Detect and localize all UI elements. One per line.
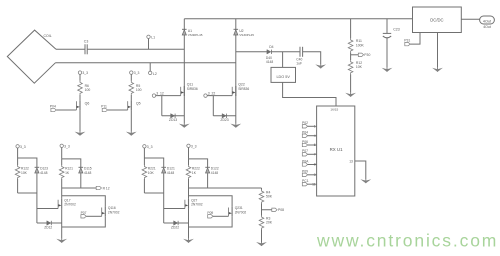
wire top antenna lead (56, 48, 85, 50)
wire left branch split (144, 148, 163, 167)
ground Q22 (230, 124, 241, 128)
wire R12 to ground (350, 74, 352, 93)
transistor Q6 (76, 95, 89, 111)
svg-text:10K: 10K (356, 65, 363, 69)
resistor R122 10K (15, 158, 29, 193)
svg-text:50K: 50K (266, 195, 273, 199)
node 3_3 supply left (R221) (143, 145, 153, 149)
wire gate Q22 (207, 95, 232, 97)
wire D4 to C40 (271, 51, 300, 53)
svg-text:20K: 20K (266, 221, 273, 225)
ground Q6 (75, 132, 86, 136)
regulator LDO 5V (271, 67, 296, 82)
svg-text:3_3: 3_3 (191, 144, 197, 148)
svg-text:100: 100 (85, 88, 91, 92)
svg-text:2N7002: 2N7002 (64, 203, 76, 207)
svg-text:P04: P04 (50, 104, 56, 108)
diode U2 (234, 29, 255, 37)
svg-text:16/15: 16/15 (330, 108, 338, 112)
svg-text:4Out: 4Out (483, 25, 491, 29)
svg-text:4148: 4148 (266, 60, 274, 64)
zener ZD13 (162, 114, 185, 123)
resistor R3 20K (259, 216, 273, 230)
wire LDO output to RX U1 (283, 82, 336, 106)
svg-text:ZD23: ZD23 (220, 118, 228, 122)
transistor Q11 (181, 83, 198, 96)
diode D122 4148 (205, 167, 219, 188)
svg-text:D4: D4 (269, 45, 273, 49)
transistor Q22 (232, 83, 249, 96)
svg-text:10K: 10K (21, 171, 28, 175)
diode D115 4148 (79, 167, 92, 188)
svg-text:13: 13 (349, 160, 353, 164)
resistor R222 1K (186, 159, 200, 199)
resistor R221 10K (142, 158, 156, 193)
resistor R4 50K (259, 188, 273, 204)
svg-text:1K: 1K (65, 171, 70, 175)
tag P07 pin 7 (302, 149, 317, 156)
wire DC/DC output (461, 18, 479, 20)
svg-text:2N7002: 2N7002 (191, 203, 203, 207)
wire main to ground (61, 209, 63, 239)
svg-text:4148: 4148 (211, 171, 219, 175)
diode D123 4148 (35, 167, 49, 193)
wire top supply rail (184, 18, 412, 20)
tag PC1 pin 11 (302, 179, 317, 186)
svg-text:1uF: 1uF (296, 61, 302, 65)
diode U1 (182, 29, 203, 37)
svg-text:11: 11 (312, 182, 316, 186)
ground C23 (382, 68, 393, 72)
wire gate Q11 (156, 95, 181, 97)
wire main to ground (188, 209, 190, 239)
wire source Q116 return (62, 217, 106, 227)
svg-text:P08: P08 (278, 208, 284, 212)
diode D4 4148 (266, 45, 274, 64)
wire D4 branch (236, 51, 267, 53)
ground DC/DC (432, 68, 443, 72)
node 3_12 gate terminal (152, 92, 164, 98)
module DC/DC converter (413, 7, 462, 33)
svg-text:6: 6 (314, 143, 316, 147)
wire left bridge vertical (183, 19, 185, 124)
wire output to divider (189, 187, 262, 189)
wire gate Q17 (37, 208, 58, 210)
node L2 (149, 63, 157, 76)
wire R11-R12 node (350, 52, 352, 60)
wire main branch split (189, 148, 208, 168)
svg-text:VS30PL45: VS30PL45 (239, 33, 254, 37)
svg-text:1K: 1K (192, 171, 197, 175)
svg-text:ZD22: ZD22 (171, 225, 179, 229)
svg-text:4148: 4148 (167, 171, 175, 175)
ground pin 13 (360, 179, 371, 183)
resistor R11 100K (348, 38, 364, 52)
ground Q17 (56, 239, 67, 243)
wire drain Q116 (62, 196, 106, 207)
wire LDO input (282, 52, 284, 68)
svg-text:P31: P31 (404, 38, 410, 42)
svg-text:P11: P11 (101, 104, 107, 108)
wire pin 13 to ground (349, 160, 366, 180)
svg-text:3_22: 3_22 (208, 92, 216, 96)
svg-text:C3: C3 (84, 40, 89, 44)
svg-text:www.cntronics.com: www.cntronics.com (316, 230, 498, 250)
svg-text:P30: P30 (364, 53, 370, 57)
svg-text:2N7002: 2N7002 (108, 211, 120, 215)
node 3_22 gate terminal (204, 92, 216, 98)
svg-text:3_12: 3_12 (156, 92, 164, 96)
resistor R12 10K (348, 60, 362, 74)
node L1 (147, 35, 155, 49)
coil antenna (diamond) (7, 30, 56, 83)
node 3_3 supply Q5 (130, 71, 140, 75)
svg-text:DC/DC: DC/DC (430, 18, 443, 23)
svg-text:ZD13: ZD13 (169, 118, 177, 122)
capacitor C3 (84, 40, 89, 55)
resistor R5 100 (129, 74, 142, 95)
svg-text:VS30PL45: VS30PL45 (188, 33, 203, 37)
svg-text:4148: 4148 (40, 171, 48, 175)
tag P30 (351, 53, 371, 57)
svg-text:4148: 4148 (84, 171, 92, 175)
wire bottom antenna lead (56, 62, 236, 64)
wire left branch split (18, 148, 37, 167)
tag P11 (101, 104, 128, 111)
wire left branch join (18, 193, 37, 223)
tag P04 pin 4 (302, 131, 317, 138)
resistor R6 100 (78, 74, 91, 95)
tag P06 pin 6 (302, 140, 317, 147)
capacitor C40 1uF (296, 47, 302, 66)
wire Q5 source (130, 110, 132, 131)
svg-text:Q6: Q6 (85, 101, 90, 105)
svg-text:2N7002: 2N7002 (235, 211, 247, 215)
svg-text:RX U1: RX U1 (330, 147, 343, 152)
svg-text:4: 4 (314, 134, 316, 138)
ground divider (256, 242, 267, 246)
svg-text:8: 8 (314, 163, 316, 167)
wire drain Q231 (189, 196, 233, 207)
ground Q5 (126, 132, 137, 136)
node 3_3 supply Q6 (78, 71, 88, 75)
svg-text:3_3: 3_3 (82, 71, 88, 75)
tag P08 (262, 204, 285, 216)
tag P02 pin 1 (302, 121, 317, 128)
wire left branch join (144, 193, 163, 223)
svg-text:1: 1 (314, 125, 316, 129)
wire rail to R11 (350, 19, 352, 39)
wire gate Q27 (164, 208, 185, 210)
svg-text:L1: L1 (151, 36, 155, 40)
ground R12 (345, 93, 356, 97)
zener ZD23 (213, 114, 236, 123)
svg-text:4Out: 4Out (483, 20, 492, 24)
svg-text:3_3: 3_3 (147, 145, 153, 149)
svg-text:3_3: 3_3 (134, 71, 140, 75)
wire C23 to ground (386, 38, 388, 68)
node Vout (480, 16, 495, 29)
svg-text:3_3: 3_3 (64, 144, 70, 148)
svg-text:100K: 100K (356, 43, 365, 47)
zener ZD22 (164, 221, 189, 230)
tag P09 pin 9 (302, 170, 317, 177)
transistor Q116 (102, 206, 120, 217)
tag R 12 output (62, 186, 110, 190)
tag P0A pin 8 (302, 159, 317, 166)
node 3_3 supply right (R222) (187, 144, 197, 148)
tag P09 (207, 211, 228, 218)
capacitor C23 (383, 19, 400, 38)
transistor Q5 (128, 95, 141, 111)
node 3_3 supply left (R122) (16, 145, 26, 149)
svg-text:7: 7 (314, 153, 316, 157)
svg-text:COIL: COIL (44, 34, 52, 38)
tag P07 (81, 211, 102, 218)
svg-text:100: 100 (136, 88, 142, 92)
transistor Q17 (58, 198, 76, 209)
op-amp U1 RX IC (317, 106, 355, 196)
wire right bridge vertical (235, 19, 237, 124)
ground Q11 (179, 124, 190, 128)
wire top lead to left bridge (87, 48, 184, 50)
resistor R121 1K (59, 159, 73, 199)
svg-text:R 12: R 12 (103, 186, 110, 190)
svg-text:SIR836: SIR836 (187, 87, 198, 91)
wire source Q231 return (189, 217, 233, 227)
svg-text:LDO 5V: LDO 5V (276, 75, 290, 79)
transistor Q27 (185, 198, 203, 209)
svg-text:C23: C23 (393, 28, 400, 32)
ground C40 (315, 64, 326, 68)
wire R3 to ground (261, 230, 263, 243)
wire C40 to ground (303, 52, 321, 65)
svg-text:L2: L2 (153, 72, 157, 76)
zener ZD12 (37, 221, 62, 230)
svg-text:9: 9 (314, 173, 316, 177)
tag P04 (50, 104, 77, 111)
svg-text:SIR836: SIR836 (238, 87, 249, 91)
node 3_3 supply right (R121) (60, 144, 70, 148)
diode D121 4148 (161, 167, 175, 193)
svg-text:3_3: 3_3 (20, 145, 26, 149)
wire DC/DC to ground (437, 33, 439, 68)
svg-text:Q5: Q5 (136, 101, 141, 105)
wire Q6 source (79, 110, 81, 131)
svg-text:10K: 10K (148, 171, 155, 175)
ground Q27 (183, 239, 194, 243)
transistor Q231 (229, 206, 247, 217)
tag P31 (404, 33, 420, 46)
wire main branch split (62, 148, 81, 168)
svg-text:ZD12: ZD12 (44, 225, 52, 229)
